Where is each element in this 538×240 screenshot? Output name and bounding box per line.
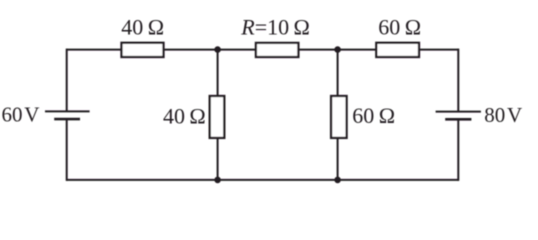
wire left upper (battery V1 top lead) [66, 49, 68, 111]
wire bottom horizontal [67, 179, 459, 181]
battery V2 80V short thick plate [445, 118, 471, 121]
label 60 V (left battery) [2, 103, 40, 127]
node dot bottom-right junction [334, 177, 341, 184]
label 80 V (right battery) [484, 103, 522, 127]
resistor R=10ohm top-middle box [256, 43, 299, 57]
label 40 ohm (top-left resistor) [121, 14, 164, 39]
wire right upper (battery V2 top lead) [457, 49, 459, 112]
resistor 40ohm top-left box [122, 43, 164, 57]
svg-text:60 Ω: 60 Ω [378, 15, 421, 40]
resistor 60ohm middle vertical box [331, 96, 347, 138]
wire right lower (battery V2 bottom lead) [457, 119, 459, 180]
svg-text:60 Ω: 60 Ω [352, 103, 395, 128]
label 40 ohm (middle vertical resistor) [163, 103, 206, 128]
label R=10 ohm (top-middle resistor) [240, 14, 310, 39]
svg-text:R=10 Ω: R=10 Ω [240, 14, 310, 39]
svg-text:60 V: 60 V [2, 103, 40, 127]
node dot bottom-left junction [214, 177, 221, 184]
svg-text:40 Ω: 40 Ω [163, 103, 206, 128]
battery V1 60V short thick plate [54, 118, 80, 121]
resistor 40ohm middle vertical box [210, 96, 225, 138]
wire left lower (battery V1 bottom lead) [66, 119, 68, 181]
node dot top-right junction [334, 46, 341, 53]
wire middle-right vertical branch [337, 50, 339, 180]
svg-text:80 V: 80 V [484, 103, 522, 127]
wire middle-left vertical branch [217, 50, 219, 180]
resistor 60ohm top-right box [376, 43, 419, 57]
wire top horizontal [67, 49, 459, 51]
label 60 ohm (middle vertical resistor) [352, 103, 395, 128]
node dot top-left junction [214, 46, 221, 53]
label 60 ohm (top-right resistor) [378, 15, 421, 40]
battery V2 80V long plate [436, 111, 481, 113]
battery V1 60V long plate [45, 110, 90, 112]
svg-text:40 Ω: 40 Ω [121, 14, 164, 39]
